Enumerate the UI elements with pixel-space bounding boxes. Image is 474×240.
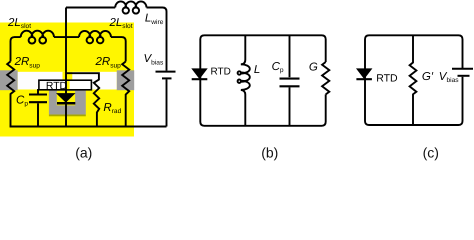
wire: between coil1 and coil2 (54, 36, 79, 38)
resistor R_rad (66, 73, 99, 126)
wire: left slot arm (11, 37, 21, 61)
wire: L branch top (241, 35, 245, 64)
wire: center vertical (65, 8, 67, 127)
wire: top wire right + right outer drop (147, 8, 167, 71)
wire: coil2 to right inner drop (111, 37, 126, 61)
svg-text:G: G (309, 61, 318, 73)
yellow mesa window (57, 91, 75, 106)
svg-text:G′: G′ (422, 71, 434, 83)
grey metal block far right (117, 70, 135, 90)
wire: below battery to bottom (166, 79, 168, 126)
wire: bottom rail (10, 126, 167, 128)
inductor L_wire (115, 1, 146, 13)
white slot opening (18, 72, 117, 90)
inductor L (b) (238, 64, 250, 90)
battery V_bias (c) long plate (452, 68, 473, 70)
grey RTD mesa block (49, 91, 86, 115)
resistor 2R_sup left (7, 61, 14, 126)
svg-text:(b): (b) (261, 144, 278, 160)
olive mesa bottom line (49, 115, 86, 117)
inductor 2L_slot left (21, 31, 54, 44)
yellow strip at centre wire (63, 72, 73, 80)
diode RTD (c) (357, 69, 371, 78)
wire: C_p branch bottom (289, 87, 291, 125)
wire: top wire left segment (66, 7, 115, 9)
box (b): top, bottom, left edges (200, 35, 325, 126)
box (c): edges with gap for battery on right (365, 35, 463, 125)
diode RTD (b) (192, 69, 206, 78)
grey metal block far left (0, 70, 18, 90)
diode RTD (a) (57, 94, 74, 102)
svg-text:RTD: RTD (211, 66, 231, 77)
battery V_bias (c) short plate (458, 75, 470, 77)
yellow highlight box (a) (0, 23, 134, 137)
svg-text:RTD: RTD (376, 72, 398, 84)
inductor 2L_slot right (79, 31, 111, 43)
battery V_bias (a) long plate (156, 71, 176, 73)
yellow strip in RTD box (67, 81, 70, 89)
svg-text:RTD: RTD (46, 81, 67, 92)
wire: L branch bottom (241, 90, 245, 126)
resistor 2R_sup right (122, 62, 129, 127)
svg-text:(c): (c) (423, 144, 439, 160)
battery V_bias (a) short plate (162, 77, 172, 79)
resistor G' (c) (410, 35, 417, 125)
resistor G (b) on right edge (322, 62, 329, 94)
capacitor C_p (a) (29, 95, 47, 103)
capacitor C_p (b) (280, 79, 300, 87)
wire: C_p branch top (289, 35, 291, 77)
RTD label box (39, 80, 92, 90)
wire: C_p stubs (37, 89, 39, 127)
svg-text:L: L (254, 64, 260, 76)
svg-text:(a): (a) (75, 144, 92, 160)
